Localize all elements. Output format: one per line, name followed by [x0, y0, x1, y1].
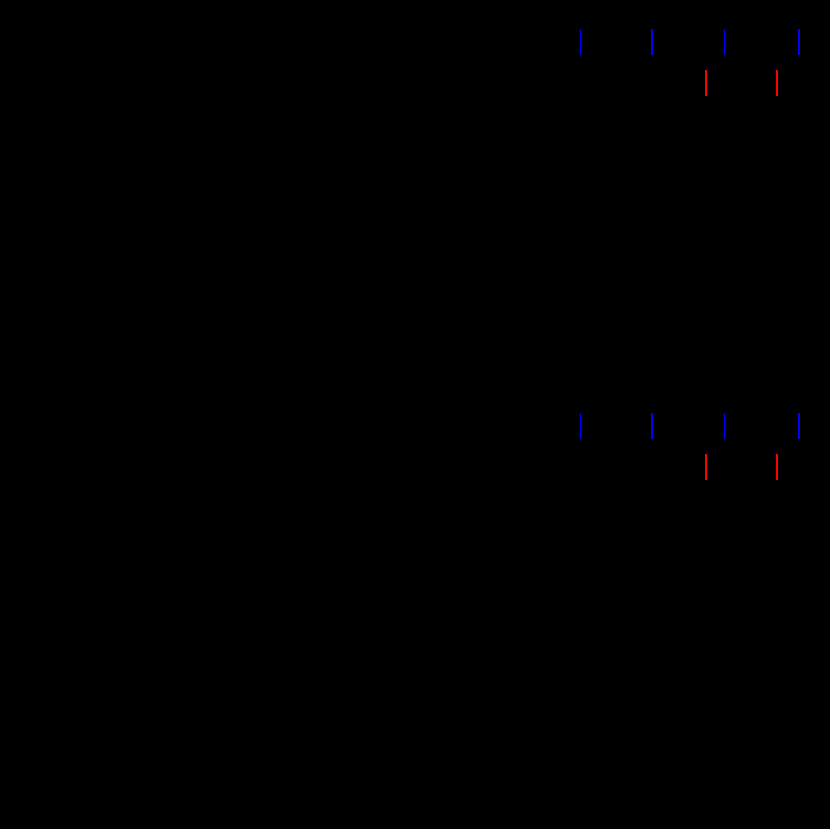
- bond C-N3 upper half (N side), molecule 2: [724, 413, 725, 439]
- bond C-N2 upper half (N side), molecule 2: [651, 413, 653, 439]
- bond C-N1 upper half (N side), molecule 2: [580, 413, 581, 439]
- bond C-O2 half (O side), molecule 2: [776, 454, 778, 480]
- bond C-O1 half (O side), molecule 2: [705, 454, 707, 480]
- bond C-O2 half (O side), molecule 1: [776, 70, 778, 96]
- bond C-N4 upper half (N side), molecule 1: [798, 29, 800, 56]
- bond C-N4 upper half (N side), molecule 2: [798, 413, 800, 439]
- bond C-N2 upper half (N side), molecule 1: [651, 29, 653, 56]
- bond C-O1 half (O side), molecule 1: [705, 70, 707, 96]
- bond C-N3 upper half (N side), molecule 1: [724, 29, 725, 56]
- bond C-N1 upper half (N side), molecule 1: [580, 29, 581, 56]
